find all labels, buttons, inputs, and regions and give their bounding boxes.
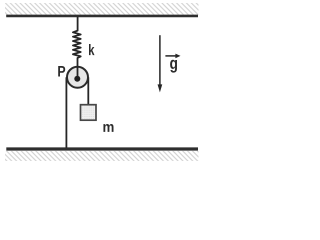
axle dot [74,76,80,82]
floor hatching [5,151,199,161]
spring k (with rod from ceiling) [73,17,81,66]
pulley P [67,67,88,88]
wire: right string from pulley to block [87,77,89,104]
wire: spoke from top to axle [77,66,79,79]
ceiling hatching [5,3,199,15]
vector arrow over g [165,55,176,57]
ceiling line [6,15,198,18]
label P [58,66,65,77]
floor line [6,147,198,150]
label m [103,124,113,132]
wire: left string from pulley to floor [65,77,67,147]
label k [89,44,95,55]
label g [170,60,177,73]
block m [81,105,97,121]
gravity arrow g [159,35,161,86]
